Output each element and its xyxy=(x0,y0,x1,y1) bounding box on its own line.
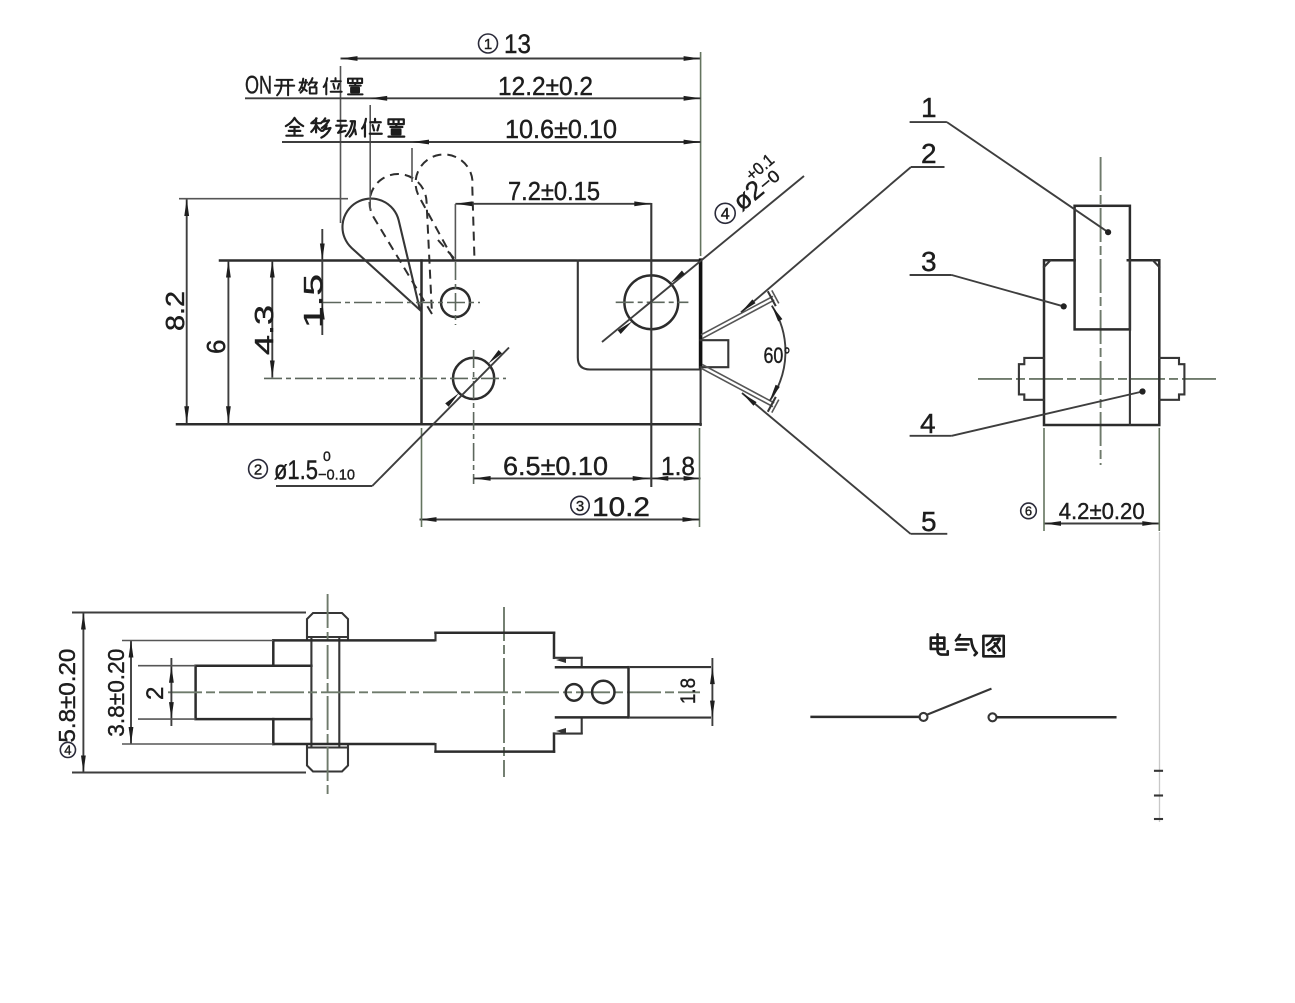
front view: right side protrusion boss xyxy=(701,340,729,367)
side view: case parting line xyxy=(1129,260,1131,425)
side view: horizontal centerline xyxy=(978,378,1218,380)
svg-text:6.5±0.10: 6.5±0.10 xyxy=(503,451,608,481)
dimension 7.2 +/-0.15 xyxy=(455,176,651,260)
dimension 13 (overall, item 1) xyxy=(341,29,701,256)
dimension 8.2 xyxy=(160,199,348,424)
callout 5 xyxy=(742,393,947,537)
dimension 2 (lever arm width) xyxy=(138,658,196,726)
table fragment dashes xyxy=(1155,771,1162,819)
front view: switch body outline xyxy=(177,261,701,426)
hole C4 centerlines xyxy=(616,204,689,486)
svg-text:ø1.5: ø1.5 xyxy=(274,455,318,485)
pivot small hole xyxy=(441,288,470,317)
upper terminal strip xyxy=(701,290,779,338)
side view: left terminal nub xyxy=(1019,358,1044,400)
svg-text:8.2: 8.2 xyxy=(160,291,190,331)
svg-text:1: 1 xyxy=(921,92,937,123)
electrical diagram: right wire xyxy=(998,716,1116,719)
side view: vertical centerline xyxy=(1100,157,1102,465)
svg-text:12.2±0.2: 12.2±0.2 xyxy=(498,71,593,101)
callout 2 xyxy=(741,138,945,312)
svg-text:1.8: 1.8 xyxy=(661,451,695,481)
svg-text:1.8: 1.8 xyxy=(677,678,700,704)
bottom view: right step details xyxy=(554,657,582,734)
lever ON-start position (dashed teardrop) xyxy=(370,174,432,314)
bottom view: terminal tab lines xyxy=(631,667,710,718)
dimension 6.5 +/-0.10 and 1.8 xyxy=(474,428,701,527)
dimension 10.2 (item 3) xyxy=(420,428,700,527)
bottom view: terminal hole large xyxy=(592,681,614,703)
svg-text:1.5: 1.5 xyxy=(298,274,328,328)
svg-text:3: 3 xyxy=(921,246,937,277)
bottom view: body outline xyxy=(273,633,554,752)
dimension 4.3 xyxy=(249,261,279,378)
lever full-travel position (dashed teardrop) xyxy=(416,154,475,260)
svg-text:2: 2 xyxy=(142,687,169,700)
svg-text:4: 4 xyxy=(721,206,730,223)
table fragment faint border line xyxy=(1159,532,1161,822)
bottom view: top pivot nub xyxy=(307,613,348,641)
svg-text:4: 4 xyxy=(64,743,71,758)
svg-text:10.2: 10.2 xyxy=(592,492,650,522)
callout 1 xyxy=(910,92,1112,235)
dimension 1.8 (terminal tab) xyxy=(677,658,715,726)
dimension 10.6 +/-0.10 (full travel position) xyxy=(282,114,701,182)
front view: internal notch step with fillet xyxy=(578,261,701,370)
svg-text:3.8±0.20: 3.8±0.20 xyxy=(103,649,129,737)
electrical diagram: left contact xyxy=(920,713,928,721)
label ON start position (Chinese) xyxy=(245,72,363,100)
label hole dia 1.5 tolerance (item 2) xyxy=(249,348,509,487)
svg-text:5: 5 xyxy=(921,506,937,537)
bottom view: body centerline vertical xyxy=(503,607,505,777)
bottom view: terminal hole small xyxy=(566,684,583,701)
svg-text:0: 0 xyxy=(323,448,331,464)
side view: lever (part 1) xyxy=(1075,206,1130,330)
svg-text:5.8±0.20: 5.8±0.20 xyxy=(54,649,80,743)
mounting hole C2 (lower left) xyxy=(453,358,494,399)
label pin dia 2 +0.1/-0 (item 4) xyxy=(602,150,804,342)
electrical diagram: switch blade xyxy=(928,689,991,715)
bottom view: pivot shaft columns xyxy=(311,637,339,748)
electrical diagram title (Chinese) xyxy=(931,634,1004,656)
callout 3 xyxy=(910,246,1067,310)
svg-text:ON: ON xyxy=(245,72,272,100)
svg-text:−0.10: −0.10 xyxy=(318,467,355,484)
bottom view: bottom pivot nub xyxy=(307,744,348,772)
svg-text:10.6±0.10: 10.6±0.10 xyxy=(505,114,617,144)
lower terminal strip xyxy=(701,364,779,412)
svg-text:6: 6 xyxy=(1025,504,1032,519)
svg-text:4.3: 4.3 xyxy=(249,305,279,355)
svg-text:7.2±0.15: 7.2±0.15 xyxy=(508,176,600,206)
callout 4 xyxy=(910,388,1146,439)
hole C2 centerlines xyxy=(264,350,506,484)
svg-text:6: 6 xyxy=(201,340,231,354)
dimension 6 xyxy=(201,261,231,424)
svg-text:60°: 60° xyxy=(764,343,791,368)
dimension 5.8 +/-0.20 (item 4 width) xyxy=(54,613,306,773)
dimension 12.2 +/-0.2 (ON start position) xyxy=(245,71,701,210)
side view: right terminal nub xyxy=(1159,358,1184,400)
electrical diagram: left wire xyxy=(812,716,920,719)
dimension 3.8 +/-0.20 xyxy=(103,641,273,745)
dimension 1.5 xyxy=(298,229,328,335)
electrical diagram: right contact xyxy=(989,713,997,721)
bottom view: main horizontal centerline xyxy=(168,691,700,693)
side view: case body (part 3) xyxy=(1044,260,1159,425)
svg-text:2: 2 xyxy=(254,461,262,478)
bottom view: terminal block xyxy=(556,667,629,717)
svg-text:13: 13 xyxy=(504,29,531,59)
lever solid position (teardrop) xyxy=(342,199,420,310)
svg-text:1: 1 xyxy=(484,36,492,53)
svg-text:2: 2 xyxy=(921,138,937,169)
contact hole C4 (large, right) xyxy=(624,275,678,329)
svg-text:4: 4 xyxy=(920,408,936,439)
pivot hole centerlines xyxy=(323,262,480,325)
bottom view: lever arm xyxy=(196,666,312,719)
svg-text:4.2±0.20: 4.2±0.20 xyxy=(1059,498,1145,524)
60 degree terminal angle arc dimension xyxy=(764,306,791,401)
bottom view: pivot axis centerline xyxy=(327,594,329,794)
front view: thick right edge of body xyxy=(699,258,703,369)
dimension 4.2 +/-0.20 (item 6) xyxy=(1021,428,1160,531)
svg-text:3: 3 xyxy=(576,498,584,515)
label full travel position (Chinese) xyxy=(286,118,404,138)
